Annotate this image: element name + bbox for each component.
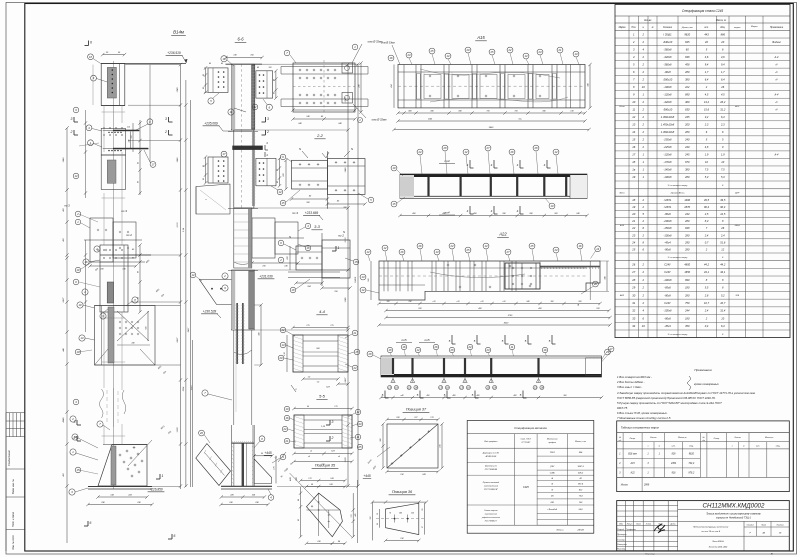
svg-text:4 Заводскую сварку производить: 4 Заводскую сварку производить полуавтом… <box>617 391 756 395</box>
svg-text:20: 20 <box>279 356 283 360</box>
svg-text:120: 120 <box>411 513 414 515</box>
svg-text:24: 24 <box>418 150 422 154</box>
svg-text:95: 95 <box>277 169 279 171</box>
svg-text:общ.: общ. <box>689 446 694 448</box>
svg-text:51,6: 51,6 <box>720 240 726 244</box>
svg-text:отв Ø 33мм: отв Ø 33мм <box>372 118 387 122</box>
svg-text:-360х8: -360х8 <box>664 47 672 51</box>
svg-text:Отпр.: Отпр. <box>630 438 636 440</box>
svg-text:1445: 1445 <box>176 157 179 163</box>
svg-text:20: 20 <box>466 48 470 52</box>
svg-text:20: 20 <box>631 212 635 216</box>
svg-text:3: 3 <box>267 117 269 121</box>
svg-text:Страница: Страница <box>645 553 656 555</box>
svg-text:Вид профиля: Вид профиля <box>484 440 498 443</box>
svg-text:С24У: С24У <box>664 262 671 266</box>
svg-text:380: 380 <box>685 77 690 81</box>
svg-text:Масса,кг: Масса,кг <box>765 437 773 439</box>
svg-text:оцинкованная: оцинкованная <box>485 514 497 516</box>
svg-text:1,7: 1,7 <box>705 70 709 74</box>
svg-text:-420х8: -420х8 <box>664 100 672 104</box>
svg-text:2,3: 2,3 <box>704 123 709 127</box>
svg-text:шт.: шт. <box>704 27 709 29</box>
svg-text:-170х8: -170х8 <box>664 160 672 164</box>
svg-text:Таблица отправочных марок: Таблица отправочных марок <box>621 426 660 430</box>
svg-text:2х3: 2х3 <box>126 127 130 129</box>
svg-text:7,5: 7,5 <box>721 168 725 172</box>
svg-text:16: 16 <box>377 513 379 515</box>
svg-text:44,2: 44,2 <box>704 262 710 266</box>
svg-text:400: 400 <box>514 394 517 397</box>
svg-text:15: 15 <box>632 138 635 142</box>
svg-text:7 Монтажные стыки столбцу л: 7 Монтажные стыки столбцу листа 2-5 <box>617 416 671 420</box>
svg-text:-150х8: -150х8 <box>664 226 672 230</box>
svg-text:750: 750 <box>685 301 690 305</box>
svg-text:+445: +445 <box>363 474 370 478</box>
svg-text:33: 33 <box>632 316 635 320</box>
svg-text:20: 20 <box>720 40 724 44</box>
svg-text:876,2: 876,2 <box>688 473 694 475</box>
svg-text:Примечания: Примечания <box>694 368 712 372</box>
svg-text:25: 25 <box>466 248 470 252</box>
svg-text:по 3: по 3 <box>292 211 298 215</box>
svg-text:32: 32 <box>632 309 635 313</box>
svg-text:28: 28 <box>631 278 635 282</box>
svg-text:448: 448 <box>258 333 261 336</box>
svg-text:85: 85 <box>298 519 300 521</box>
svg-text:-120х8: -120х8 <box>664 153 672 157</box>
svg-text:350: 350 <box>685 324 690 328</box>
svg-text:Колонны А15, А22: Колонны А15, А22 <box>709 545 728 548</box>
svg-text:Позиция 35: Позиция 35 <box>315 464 336 468</box>
svg-text:Позиция 36: Позиция 36 <box>392 490 413 494</box>
svg-text:5,3: 5,3 <box>705 175 709 179</box>
svg-text:-90х8: -90х8 <box>664 70 671 74</box>
svg-text:445: 445 <box>354 514 357 517</box>
svg-text:1,7: 1,7 <box>721 70 725 74</box>
svg-text:t Вжив6х4: t Вжив6х4 <box>548 508 558 511</box>
svg-text:шт.: шт. <box>756 446 760 448</box>
svg-text:А15: А15 <box>619 224 625 227</box>
svg-text:+236.519: +236.519 <box>167 51 181 55</box>
svg-text:12,5: 12,5 <box>720 212 726 216</box>
svg-text:Утвердил: Утвердил <box>617 543 627 546</box>
svg-text:А-4: А-4 <box>774 56 780 59</box>
svg-text:6,4: 6,4 <box>705 77 709 81</box>
svg-text:1380: 1380 <box>177 87 179 93</box>
svg-text:49,5: 49,5 <box>704 198 710 202</box>
svg-text:кроме оговоренных: кроме оговоренных <box>694 383 719 386</box>
svg-text:отв Ø 33мм: отв Ø 33мм <box>381 42 395 45</box>
svg-text:А-4: А-4 <box>774 154 780 157</box>
svg-text:150: 150 <box>131 136 133 139</box>
svg-text:4,6: 4,6 <box>721 55 725 59</box>
svg-text:26: 26 <box>720 85 724 89</box>
svg-text:26: 26 <box>434 345 438 349</box>
svg-text:по 2: по 2 <box>126 233 132 237</box>
svg-text:I 26Л1: I 26Л1 <box>664 198 672 202</box>
svg-text:Т.контр.: Т.контр. <box>617 540 626 542</box>
svg-text:44,1: 44,1 <box>720 270 726 274</box>
svg-text:СН112ММХ.КМД0002: СН112ММХ.КМД0002 <box>703 502 765 509</box>
svg-text:100: 100 <box>387 301 390 303</box>
svg-text:+235.069: +235.069 <box>204 122 218 126</box>
svg-text:90,4: 90,4 <box>720 205 726 209</box>
svg-text:6: 6 <box>90 41 92 45</box>
svg-text:240,6: 240,6 <box>734 224 741 227</box>
svg-text:240: 240 <box>684 138 690 142</box>
svg-text:2: 2 <box>164 130 167 134</box>
svg-text:В1ни: В1ни <box>619 106 625 108</box>
svg-text:-250х8: -250х8 <box>663 138 672 142</box>
svg-text:16: 16 <box>632 145 635 149</box>
svg-text:с10: с10 <box>503 301 506 303</box>
svg-text:с10: с10 <box>457 301 460 303</box>
svg-text:по5: по5 <box>425 338 430 342</box>
svg-text:22: 22 <box>281 328 285 332</box>
svg-text:400: 400 <box>685 100 690 104</box>
svg-text:3: 3 <box>71 117 73 121</box>
svg-text:25: 25 <box>358 445 362 449</box>
svg-text:23: 23 <box>407 53 411 57</box>
svg-text:1,9: 1,9 <box>721 153 725 157</box>
svg-text:867,4: 867,4 <box>578 483 584 486</box>
svg-text:Стадия: Стадия <box>747 524 754 527</box>
svg-text:+445: +445 <box>264 451 271 455</box>
svg-text:24: 24 <box>468 345 472 349</box>
svg-text:20: 20 <box>593 282 597 286</box>
svg-text:Проверил: Проверил <box>617 534 627 536</box>
svg-text:244: 244 <box>684 309 690 313</box>
svg-text:Итого: Итого <box>621 485 629 487</box>
svg-text:1445: 1445 <box>344 167 347 173</box>
svg-text:44Б: 44Б <box>289 476 292 480</box>
svg-text:24724: 24724 <box>577 529 585 532</box>
svg-text:Кол-во: Кол-во <box>650 437 657 439</box>
svg-text:Масса, в кг: Масса, в кг <box>575 441 586 443</box>
svg-text:3-3: 3-3 <box>314 224 321 229</box>
svg-text:1.390х10х8: 1.390х10х8 <box>661 130 675 134</box>
svg-text:9,4: 9,4 <box>705 62 709 66</box>
svg-text:380: 380 <box>685 168 690 172</box>
svg-text:Лист: Лист <box>760 525 766 527</box>
svg-text:В1бн: В1бн <box>620 193 626 195</box>
svg-text:2,3: 2,3 <box>720 123 725 127</box>
svg-text:А15: А15 <box>476 35 485 40</box>
svg-text:1а: 1а <box>632 168 635 172</box>
svg-text:Т/5К1: Т/5К1 <box>550 452 555 454</box>
svg-text:4-4: 4-4 <box>319 309 326 314</box>
svg-text:-100х8: -100х8 <box>664 278 672 282</box>
svg-text:Сетка сварная: Сетка сварная <box>484 510 498 512</box>
svg-text:95: 95 <box>203 74 205 76</box>
svg-text:2437: 2437 <box>62 297 65 304</box>
svg-text:9620: 9620 <box>684 32 690 36</box>
svg-text:28: 28 <box>368 352 372 356</box>
svg-text:40: 40 <box>209 62 211 65</box>
svg-text:95: 95 <box>203 178 205 180</box>
svg-text:9467-75.: 9467-75. <box>617 406 628 410</box>
svg-text:12: 12 <box>632 115 635 119</box>
svg-text:4,8: 4,8 <box>705 145 709 149</box>
svg-text:25: 25 <box>355 350 359 354</box>
svg-text:-320х8: -320х8 <box>664 55 672 59</box>
svg-text:20: 20 <box>199 431 203 435</box>
svg-text:2870: 2870 <box>683 205 690 209</box>
svg-text:Прокат листовой: Прокат листовой <box>483 481 500 484</box>
svg-text:450: 450 <box>427 394 430 397</box>
svg-text:Примечание: Примечание <box>770 27 784 29</box>
svg-text:222: 222 <box>684 85 690 89</box>
svg-text:ь40: ь40 <box>401 394 404 397</box>
svg-text:886: 886 <box>721 32 726 36</box>
svg-text:414: 414 <box>390 84 393 87</box>
svg-text:140: 140 <box>127 140 130 143</box>
svg-text:1 Все отверстия Ø23 мм -: 1 Все отверстия Ø23 мм - <box>617 375 652 379</box>
svg-text:4485: 4485 <box>62 417 65 423</box>
svg-text:5,3: 5,3 <box>721 175 725 179</box>
svg-text:44,2: 44,2 <box>720 262 726 266</box>
svg-text:% на отправ. марку: % на отправ. марку <box>668 185 689 187</box>
svg-text:245: 245 <box>684 153 690 157</box>
svg-text:Длина, мм: Длина, мм <box>681 27 693 29</box>
svg-text:С24Б: С24Б <box>550 472 556 475</box>
svg-text:1: 1 <box>162 474 164 478</box>
svg-text:160: 160 <box>399 513 402 515</box>
svg-text:1445: 1445 <box>62 157 65 163</box>
svg-text:марки: марки <box>734 27 741 29</box>
svg-text:40: 40 <box>137 297 140 299</box>
svg-text:4,6: 4,6 <box>705 55 709 59</box>
svg-text:С245: С245 <box>523 486 529 489</box>
svg-text:Взам. инв. №: Взам. инв. № <box>12 479 15 494</box>
svg-text:4,5: 4,5 <box>705 92 709 96</box>
svg-text:2: 2 <box>266 130 269 134</box>
svg-text:Трасса въединения к существующ: Трасса въединения к существующему главно… <box>706 512 761 515</box>
svg-text:общ.: общ. <box>776 446 781 448</box>
svg-text:27: 27 <box>486 146 490 150</box>
svg-text:Сечение: Сечение <box>663 27 673 29</box>
svg-text:общ.: общ. <box>720 27 726 29</box>
svg-text:18: 18 <box>632 160 635 164</box>
svg-text:6-6: 6-6 <box>237 37 244 42</box>
svg-text:Масса, кг: Масса, кг <box>716 20 727 22</box>
svg-text:шт.: шт. <box>672 446 676 448</box>
svg-text:[16У: [16У <box>549 466 555 468</box>
svg-text:10: 10 <box>642 85 645 89</box>
svg-text:40: 40 <box>276 181 279 183</box>
svg-text:55: 55 <box>422 509 424 511</box>
svg-text:23: 23 <box>486 348 490 352</box>
svg-text:24: 24 <box>283 427 287 431</box>
svg-text:В14м: В14м <box>173 30 184 35</box>
svg-text:Н.контр.: Н.контр. <box>617 549 626 551</box>
svg-text:ГОСТ 8568-77: ГОСТ 8568-77 <box>485 521 498 523</box>
svg-text:280: 280 <box>684 175 690 179</box>
svg-text:26: 26 <box>418 244 422 248</box>
svg-text:240: 240 <box>684 145 690 149</box>
svg-text:1460: 1460 <box>684 198 690 202</box>
svg-text:2: 2 <box>70 130 73 134</box>
svg-text:540: 540 <box>145 327 148 330</box>
svg-text:Кол.уч: Кол.уч <box>627 524 633 526</box>
svg-text:950: 950 <box>564 395 567 397</box>
svg-text:1285: 1285 <box>345 297 347 303</box>
svg-text:профиль: профиль <box>548 441 556 444</box>
svg-text:26: 26 <box>720 226 724 230</box>
svg-text:10,7: 10,7 <box>720 301 726 305</box>
svg-text:% на отправ. марку: % на отправ. марку <box>668 334 689 336</box>
svg-text:2454: 2454 <box>670 462 677 465</box>
svg-text:6,4: 6,4 <box>721 324 725 328</box>
svg-text:-100х8: -100х8 <box>664 233 672 237</box>
svg-text:19: 19 <box>632 175 635 179</box>
svg-text:84: 84 <box>338 540 340 543</box>
svg-text:Фидинг: Фидинг <box>772 41 782 44</box>
svg-text:9,4: 9,4 <box>721 62 725 66</box>
svg-text:6: 6 <box>174 534 176 538</box>
svg-text:С24У: С24У <box>664 301 671 305</box>
svg-text:28: 28 <box>443 146 447 150</box>
svg-text:рифлёная стальная: рифлёная стальная <box>481 516 500 519</box>
svg-text:+233.669: +233.669 <box>305 211 319 215</box>
svg-text:280: 280 <box>684 70 690 74</box>
svg-text:Разраб.: Разраб. <box>617 529 625 531</box>
svg-text:14: 14 <box>577 304 580 306</box>
svg-text:Двутавры по СТО: Двутавры по СТО <box>482 453 500 455</box>
svg-text:10: 10 <box>642 324 645 328</box>
svg-text:31,2: 31,2 <box>720 108 726 112</box>
svg-text:1647,3: 1647,3 <box>578 465 585 468</box>
svg-text:45: 45 <box>221 62 223 65</box>
svg-text:4800: 4800 <box>684 262 690 266</box>
svg-text:690: 690 <box>685 278 690 282</box>
svg-text:по5: по5 <box>402 338 407 342</box>
svg-text:60: 60 <box>377 523 379 525</box>
svg-text:98: 98 <box>298 499 300 501</box>
svg-text:Поз.: Поз. <box>631 27 636 29</box>
svg-text:2437: 2437 <box>176 337 179 344</box>
svg-text:-//-: -//- <box>775 101 778 104</box>
svg-text:200: 200 <box>578 301 582 303</box>
svg-text:22: 22 <box>508 48 512 52</box>
svg-text:245: 245 <box>684 115 690 119</box>
svg-text:17: 17 <box>632 153 635 157</box>
svg-text:280: 280 <box>684 293 690 297</box>
svg-text:-225х8: -225х8 <box>663 145 672 149</box>
svg-text:458: 458 <box>685 62 690 66</box>
svg-text:3: 3 <box>332 420 334 424</box>
svg-text:С24У: С24У <box>664 270 671 274</box>
svg-text:2999: 2999 <box>643 485 650 487</box>
svg-text:-200х8: -200х8 <box>663 219 672 223</box>
svg-text:95: 95 <box>138 271 140 273</box>
svg-text:I 26Л1: I 26Л1 <box>664 205 672 209</box>
svg-text:-80х6: -80х6 <box>664 212 671 216</box>
svg-text:70: 70 <box>389 513 391 515</box>
svg-text:26: 26 <box>631 262 635 266</box>
svg-text:230: 230 <box>408 301 412 303</box>
svg-text:Фаза ВЭЧб: Фаза ВЭЧб <box>712 540 724 543</box>
svg-text:-100х8: -100х8 <box>664 175 672 179</box>
svg-text:ГОСТ 8050-85 (сварочной провол: ГОСТ 8050-85 (сварочной проволокой) Пров… <box>617 396 716 400</box>
svg-text:1.450х10х8: 1.450х10х8 <box>661 123 675 127</box>
svg-text:по оси 19 по оси Б: по оси 19 по оси Б <box>701 531 720 533</box>
svg-text:% на отправ. марку: % на отправ. марку <box>668 257 689 259</box>
svg-text:25: 25 <box>530 244 534 248</box>
svg-text:Итого: Итого <box>557 530 565 532</box>
svg-text:95: 95 <box>274 79 276 81</box>
svg-text:Дата: Дата <box>669 524 675 526</box>
svg-text:40: 40 <box>137 162 140 164</box>
svg-text:-380х10: -380х10 <box>663 108 673 112</box>
svg-text:корпусу не Челябинской ТЭЦ-1: корпусу не Челябинской ТЭЦ-1 <box>716 517 751 520</box>
svg-text:-//-: -//- <box>775 63 778 66</box>
svg-text:2437: 2437 <box>344 377 347 384</box>
svg-text:-140х8: -140х8 <box>664 168 672 172</box>
svg-text:Листов: Листов <box>776 525 784 527</box>
svg-text:Марка: Марка <box>751 26 758 28</box>
svg-text:95: 95 <box>274 92 276 94</box>
svg-text:120: 120 <box>268 67 271 69</box>
svg-text:-105х8: -105х8 <box>664 309 672 313</box>
svg-text:горячекатаный: горячекатаный <box>484 485 499 488</box>
svg-text:2-2: 2-2 <box>316 133 324 138</box>
svg-text:А22: А22 <box>630 472 636 475</box>
svg-text:6 Все стыки Н=М, кроме огово: 6 Все стыки Н=М, кроме оговоренных. <box>617 411 668 415</box>
svg-text:24: 24 <box>450 244 454 248</box>
svg-text:Согласовано: Согласовано <box>7 450 11 466</box>
svg-text:-360х8: -360х8 <box>664 62 672 66</box>
svg-text:2 Все болты d20мм -: 2 Все болты d20мм - <box>616 380 645 384</box>
svg-text:А2Р: А2Р <box>734 192 740 195</box>
svg-text:+231.030: +231.030 <box>259 275 273 279</box>
svg-text:180: 180 <box>685 316 690 320</box>
svg-text:400: 400 <box>453 394 456 397</box>
svg-text:7,5: 7,5 <box>705 168 709 172</box>
svg-text:9620: 9620 <box>689 454 695 456</box>
svg-text:645: 645 <box>685 40 690 44</box>
svg-text:-45х4: -45х4 <box>664 324 671 328</box>
svg-text:20: 20 <box>704 40 708 44</box>
svg-text:0,4: 0,4 <box>705 324 709 328</box>
svg-text:200: 200 <box>684 123 690 127</box>
svg-text:28: 28 <box>450 348 454 352</box>
svg-text:ГОСТ 19903-74*: ГОСТ 19903-74* <box>484 488 498 491</box>
svg-text:26: 26 <box>510 150 514 154</box>
svg-text:30: 30 <box>632 293 635 297</box>
svg-text:2,4: 2,4 <box>720 233 725 237</box>
svg-text:-640х10: -640х10 <box>663 40 673 44</box>
svg-text:4,5: 4,5 <box>721 92 725 96</box>
svg-text:-260х10: -260х10 <box>663 77 673 81</box>
svg-text:400: 400 <box>477 394 480 397</box>
svg-text:А15: А15 <box>630 462 636 465</box>
svg-text:10,7: 10,7 <box>704 301 710 305</box>
svg-text:40: 40 <box>257 66 259 69</box>
svg-text:21: 21 <box>353 331 357 335</box>
svg-text:27: 27 <box>631 270 635 274</box>
svg-text:с10: с10 <box>433 301 436 303</box>
svg-text:648: 648 <box>685 226 690 230</box>
svg-text:Лист: Лист <box>635 524 641 526</box>
svg-text:Монтажная: Монтажная <box>547 439 558 441</box>
svg-text:1200: 1200 <box>177 427 179 433</box>
svg-text:29: 29 <box>631 286 635 290</box>
svg-text:2034: 2034 <box>182 386 185 392</box>
svg-text:27: 27 <box>506 250 510 254</box>
svg-text:23: 23 <box>538 50 542 54</box>
